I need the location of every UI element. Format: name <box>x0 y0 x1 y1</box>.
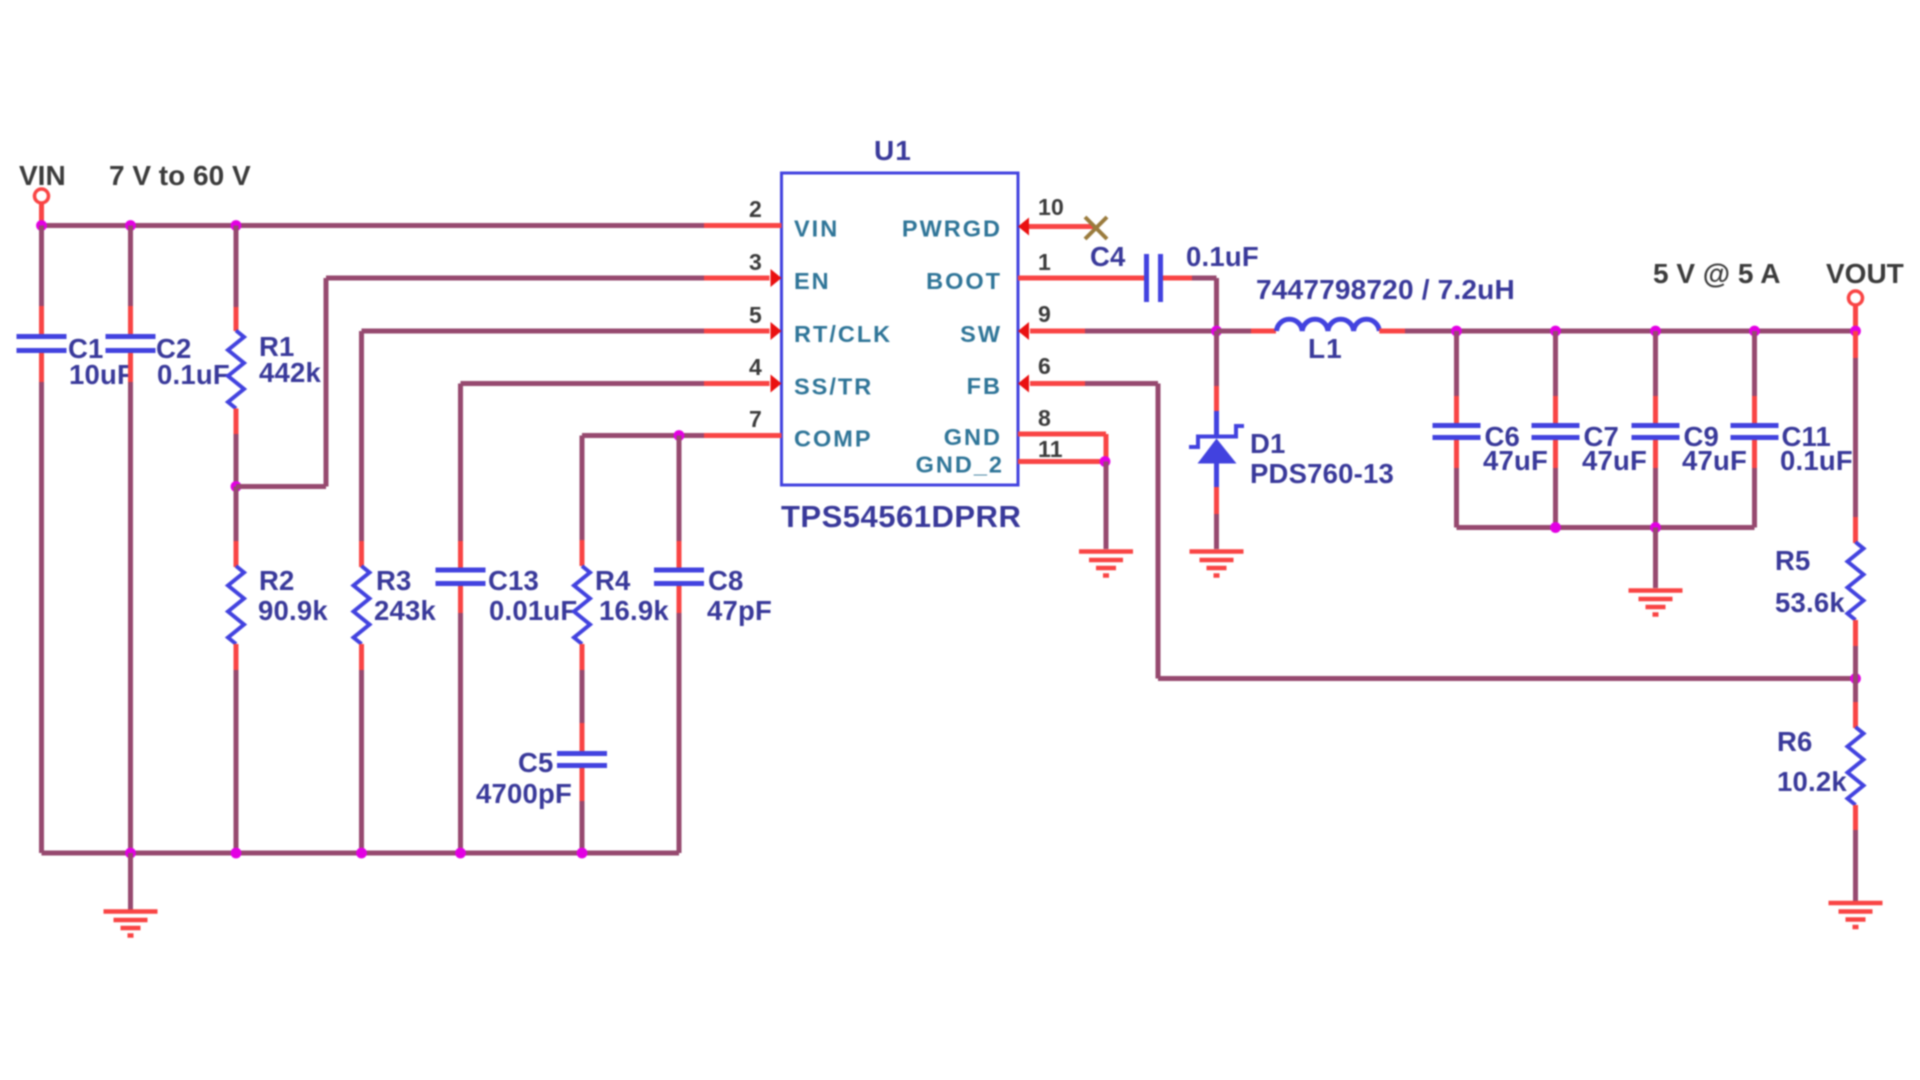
wire ground stem left <box>128 853 133 910</box>
wire C11 lower <box>1752 468 1757 528</box>
wire R5 lower <box>1853 646 1858 679</box>
capacitor C2 <box>106 306 230 390</box>
L1 value 7447798720 / 7.2uH <box>1256 274 1515 305</box>
op-amp U1 body <box>782 173 1019 485</box>
wire C5 lower <box>580 801 585 853</box>
node VIN-R1 <box>231 220 242 231</box>
node rail-C11 <box>1749 326 1760 337</box>
wire C1 lower <box>39 382 44 853</box>
wire R1 upper <box>234 226 239 308</box>
pin 4 SS/TR <box>704 354 782 393</box>
pin name BOOT <box>926 268 1002 294</box>
svg-text:47uF: 47uF <box>1582 445 1647 476</box>
wire R2 lower <box>234 670 239 853</box>
wire R3 lower <box>359 670 364 853</box>
svg-text:0.1uF: 0.1uF <box>1186 241 1259 272</box>
node bus-R3 <box>356 848 367 859</box>
svg-text:10uF: 10uF <box>69 359 134 390</box>
capacitor C7 <box>1532 396 1648 476</box>
wire C9 upper <box>1653 331 1658 396</box>
svg-text:R3: R3 <box>376 565 412 596</box>
wire C13 lower <box>458 613 463 853</box>
net label 7 V to 60 V <box>109 160 251 191</box>
wire C6 upper <box>1454 331 1459 396</box>
wire C11 upper <box>1752 331 1757 396</box>
pin 11 GND_2 <box>1018 436 1105 462</box>
wire C9 lower <box>1653 468 1658 528</box>
node SW-C4-D1 <box>1211 326 1222 337</box>
ground U1 <box>1079 552 1133 576</box>
wire R6 upper <box>1853 679 1858 729</box>
svg-text:EN: EN <box>794 268 831 294</box>
pin 7 COMP <box>704 406 782 436</box>
svg-text:U1: U1 <box>874 135 912 166</box>
wire EN <box>236 278 704 487</box>
inductor L1 <box>1277 319 1380 364</box>
svg-text:5 V @ 5 A: 5 V @ 5 A <box>1653 258 1780 289</box>
wire D1 to ground <box>1214 514 1219 549</box>
svg-text:0.1uF: 0.1uF <box>157 359 230 390</box>
svg-text:0.1uF: 0.1uF <box>1780 445 1853 476</box>
pin 1 BOOT <box>1018 249 1144 278</box>
node bus-C13 <box>455 848 466 859</box>
wire R6 to ground <box>1853 830 1858 901</box>
capacitor C11 <box>1731 396 1853 476</box>
net label VOUT <box>1826 258 1904 289</box>
pin name SS/TR <box>794 374 873 400</box>
wire C2 lower <box>128 382 133 853</box>
svg-text:C5: C5 <box>518 747 554 778</box>
pin name GND <box>944 424 1002 450</box>
svg-text:4700pF: 4700pF <box>476 778 572 809</box>
svg-text:47uF: 47uF <box>1483 445 1548 476</box>
resistor R5 <box>1775 517 1864 646</box>
pin 3 EN <box>704 249 782 287</box>
svg-text:PWRGD: PWRGD <box>902 216 1002 242</box>
pin name FB <box>967 373 1002 399</box>
wire C8 upper <box>677 436 682 542</box>
svg-text:8: 8 <box>1038 405 1051 431</box>
svg-text:4: 4 <box>749 354 762 380</box>
svg-text:COMP: COMP <box>794 426 873 452</box>
node R1-R2-EN <box>231 481 242 492</box>
pin 9 SW <box>1018 301 1085 340</box>
wire R5 upper <box>1853 331 1858 517</box>
net label 5 V @ 5 A <box>1653 258 1780 289</box>
wire SS/TR <box>461 384 705 542</box>
net label VIN <box>19 160 66 191</box>
svg-text:7 V to 60 V: 7 V to 60 V <box>109 160 251 191</box>
svg-text:VIN: VIN <box>794 216 839 242</box>
svg-text:0.01uF: 0.01uF <box>489 595 577 626</box>
svg-text:243k: 243k <box>374 595 436 626</box>
pin name RT/CLK <box>794 321 892 347</box>
svg-text:1: 1 <box>1038 249 1051 275</box>
wire C7 upper <box>1553 331 1558 396</box>
svg-text:9: 9 <box>1038 301 1051 327</box>
no-connect X <box>1085 217 1107 239</box>
U1 refdes <box>874 135 912 166</box>
svg-text:R2: R2 <box>259 565 295 596</box>
svg-text:90.9k: 90.9k <box>258 595 328 626</box>
capacitor C6 <box>1433 396 1549 476</box>
svg-text:VIN: VIN <box>19 160 66 191</box>
svg-text:L1: L1 <box>1308 333 1343 364</box>
svg-text:GND: GND <box>944 424 1002 450</box>
node rail-C6 <box>1451 326 1462 337</box>
capacitor C4 <box>1090 241 1259 302</box>
node cbus-C7 <box>1550 522 1561 533</box>
pin 6 FB <box>1018 353 1085 393</box>
resistor R3 <box>354 541 437 670</box>
wire SW to L1 <box>1085 329 1216 334</box>
svg-text:SW: SW <box>960 321 1002 347</box>
resistor R1 <box>228 307 321 434</box>
wire FB <box>1085 384 1856 679</box>
node cbus-C9 <box>1650 522 1661 533</box>
wire GND corner <box>1104 434 1109 462</box>
wire D1 upper <box>1214 331 1219 411</box>
pin name COMP <box>794 426 873 452</box>
wire R1 lower <box>234 434 239 487</box>
wire RT/CLK <box>362 331 705 541</box>
svg-text:2: 2 <box>749 196 762 222</box>
svg-text:7447798720 / 7.2uH: 7447798720 / 7.2uH <box>1256 274 1515 305</box>
pin 2 VIN <box>704 196 782 226</box>
svg-text:GND_2: GND_2 <box>916 452 1004 478</box>
ground R6 <box>1829 903 1883 927</box>
wire output ground stem <box>1653 528 1658 589</box>
ground D1 <box>1190 552 1244 576</box>
wire C2 upper <box>128 226 133 307</box>
node FB-R5-R6 <box>1850 673 1861 684</box>
resistor R2 <box>228 541 328 670</box>
node rail-C9 <box>1650 326 1661 337</box>
node VIN-C1 <box>36 220 47 231</box>
svg-text:47pF: 47pF <box>707 595 772 626</box>
pin name PWRGD <box>902 216 1002 242</box>
capacitor C9 <box>1632 396 1748 476</box>
node bus-R2 <box>231 848 242 859</box>
wire output cap bus <box>1457 525 1755 530</box>
node rail-C7 <box>1550 326 1561 337</box>
pin name GND_2 <box>916 452 1004 478</box>
wire C8 lower <box>677 613 682 853</box>
wire COMP <box>582 436 704 541</box>
svg-text:C4: C4 <box>1090 241 1126 272</box>
wire R4-C5 <box>580 670 585 723</box>
wire C1 upper <box>39 226 44 307</box>
svg-text:PDS760-13: PDS760-13 <box>1250 458 1394 489</box>
node GND-GND_2 <box>1100 456 1111 467</box>
svg-text:11: 11 <box>1038 436 1063 462</box>
svg-text:RT/CLK: RT/CLK <box>794 321 892 347</box>
svg-text:7: 7 <box>749 406 762 432</box>
svg-text:442k: 442k <box>259 357 321 388</box>
terminal VOUT <box>1849 291 1863 331</box>
svg-text:TPS54561DPRR: TPS54561DPRR <box>781 499 1021 534</box>
svg-text:47uF: 47uF <box>1682 445 1747 476</box>
wire C7 lower <box>1553 468 1558 528</box>
svg-text:R4: R4 <box>595 565 631 596</box>
wire GND to ground <box>1104 462 1109 550</box>
svg-text:C8: C8 <box>708 565 744 596</box>
svg-text:SS/TR: SS/TR <box>794 374 873 400</box>
node bus-R4 <box>577 848 588 859</box>
pin name EN <box>794 268 831 294</box>
pin 8 GND <box>1018 405 1106 434</box>
wire L1 left lead <box>1217 329 1277 334</box>
pin 10 PWRGD <box>1018 194 1094 236</box>
node VIN-C2 <box>125 220 136 231</box>
svg-text:C13: C13 <box>488 565 539 596</box>
wire L1 right lead <box>1379 329 1405 334</box>
node COMP-C8 <box>674 430 685 441</box>
svg-text:FB: FB <box>967 373 1002 399</box>
capacitor C5 <box>476 723 607 809</box>
svg-text:3: 3 <box>749 249 762 275</box>
svg-text:5: 5 <box>749 302 762 328</box>
wire VOUT rail <box>1405 329 1856 334</box>
node bus-C2 <box>125 848 136 859</box>
resistor R6 <box>1777 726 1864 830</box>
wire C6 lower <box>1454 468 1459 528</box>
svg-text:BOOT: BOOT <box>926 268 1002 294</box>
svg-text:R6: R6 <box>1777 726 1813 757</box>
node rail-VOUT <box>1850 326 1861 337</box>
capacitor C13 <box>436 541 578 626</box>
terminal VIN <box>35 189 49 226</box>
ground input bus <box>104 912 158 936</box>
svg-text:16.9k: 16.9k <box>599 595 669 626</box>
diode D1 <box>1189 411 1394 514</box>
wire C4 to SW node <box>1163 278 1217 331</box>
svg-text:10.2k: 10.2k <box>1777 766 1847 797</box>
wire R2 upper <box>234 487 239 542</box>
pin 5 RT/CLK <box>704 302 782 340</box>
capacitor C1 <box>17 306 135 390</box>
pin name VIN <box>794 216 839 242</box>
svg-text:6: 6 <box>1038 353 1051 379</box>
wire ground bus <box>42 851 680 856</box>
capacitor C8 <box>654 541 772 626</box>
U1 part number TPS54561DPRR <box>781 499 1021 534</box>
svg-text:VOUT: VOUT <box>1826 258 1904 289</box>
wire VIN top rail <box>42 223 705 228</box>
svg-text:10: 10 <box>1038 194 1064 220</box>
resistor R4 <box>574 540 669 670</box>
pin name SW <box>960 321 1002 347</box>
ground output caps <box>1629 591 1683 615</box>
svg-text:D1: D1 <box>1250 428 1286 459</box>
svg-text:53.6k: 53.6k <box>1775 587 1845 618</box>
svg-text:R5: R5 <box>1775 545 1811 576</box>
